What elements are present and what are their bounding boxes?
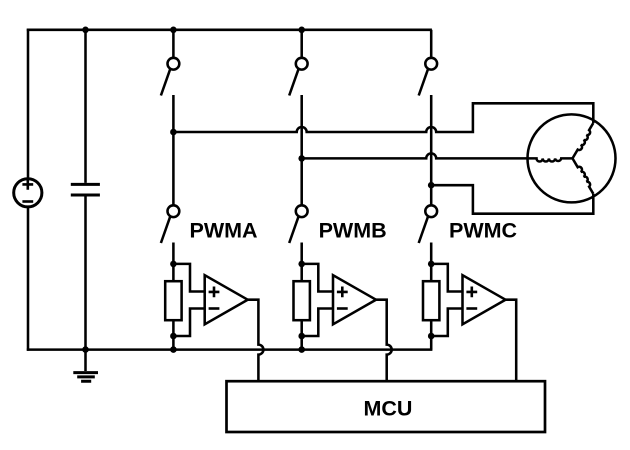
op-amp UC minus input mark: [466, 307, 477, 310]
resistor RB shunt: [294, 281, 310, 320]
switch SCL lever: [419, 216, 428, 243]
switch SAL circle: [168, 205, 180, 217]
wire op-amp UA -input branch: [173, 309, 204, 337]
node capacitor top rail: [82, 27, 89, 34]
wire phase C: [431, 185, 593, 214]
wire below resistor RA: [172, 320, 175, 349]
wire leg A mid: [172, 95, 175, 205]
node leg A top rail: [170, 27, 177, 34]
voltage source V1: [14, 179, 42, 207]
node -branch tap A: [170, 333, 177, 340]
wire top stub leg B: [300, 30, 303, 58]
ground symbol: [73, 373, 98, 382]
voltage source V1 plus mark: [22, 179, 33, 190]
svg-text:PWMB: PWMB: [319, 219, 387, 243]
node capacitor bottom rail: [82, 346, 89, 353]
motor winding phase C (lower-right arm): [573, 158, 594, 193]
wire left bus upper: [27, 29, 30, 178]
switch SAH circle: [168, 58, 180, 70]
wire bottom rail: [27, 348, 433, 351]
resistor RC shunt: [423, 281, 439, 320]
switch SBL circle: [296, 205, 308, 217]
switch SCH circle: [425, 58, 437, 70]
capacitor C1 plates: [71, 184, 100, 195]
node +branch tap A: [170, 261, 177, 268]
capacitor C1 top wire: [84, 30, 87, 183]
op-amp UC: [463, 275, 506, 324]
wire phase B with hop over leg C: [302, 153, 528, 158]
svg-text:MCU: MCU: [364, 397, 413, 421]
wire leg B lower: [300, 243, 303, 282]
switch SBH lever: [289, 69, 298, 96]
node +branch tap B: [298, 261, 305, 268]
wire op-amp UB +input branch: [302, 264, 333, 292]
switch SAH lever: [161, 69, 170, 96]
voltage source V1 minus mark: [22, 200, 33, 203]
switch SBH circle: [296, 58, 308, 70]
op-amp UA: [205, 275, 248, 324]
wire op-amp UA +input branch: [173, 264, 204, 292]
wire op-amp UC -input branch: [431, 309, 462, 337]
wire phase A with hops over legs B and C: [173, 103, 593, 132]
node leg A bottom rail: [170, 346, 177, 353]
motor winding phase B (left arm): [528, 158, 573, 161]
op-amp UB: [333, 275, 376, 324]
svg-text:PWMC: PWMC: [449, 219, 517, 243]
motor winding phase A (upper-right arm): [573, 123, 594, 158]
capacitor C1 bottom wire: [84, 197, 87, 350]
node leg B top rail: [298, 27, 305, 34]
switch SAL lever: [161, 216, 170, 243]
wire left bus lower: [27, 207, 30, 351]
node phase C tap: [428, 182, 435, 189]
svg-text:PWMA: PWMA: [190, 219, 258, 243]
op-amp UB plus input mark: [337, 287, 348, 298]
op-amp UB minus input mark: [337, 307, 348, 310]
op-amp UC plus input mark: [466, 287, 477, 298]
wire op-amp UC output to MCU: [506, 300, 517, 383]
switch SCL circle: [425, 205, 437, 217]
node phase A tap: [170, 129, 177, 136]
wire op-amp UC +input branch: [431, 264, 462, 292]
node -branch tap C: [428, 333, 435, 340]
wire below resistor RB: [300, 320, 303, 349]
wire top stub leg A: [172, 30, 175, 58]
wire top stub leg C: [430, 30, 433, 58]
wire below resistor RC: [430, 320, 433, 349]
op-amp UA minus input mark: [209, 307, 220, 310]
wire op-amp UA output to MCU: [248, 300, 264, 383]
wire leg A lower: [172, 243, 175, 282]
wire op-amp UB -input branch: [302, 309, 333, 337]
op-amp UA plus input mark: [209, 287, 220, 298]
wire leg C lower: [430, 243, 433, 282]
wire leg B mid: [300, 95, 303, 205]
MCU box: [227, 381, 546, 432]
wire leg C mid: [430, 95, 433, 205]
node phase B tap: [298, 155, 305, 162]
ground stub: [84, 350, 87, 371]
wire op-amp UB output to MCU: [376, 300, 392, 383]
node -branch tap B: [298, 333, 305, 340]
wire top rail: [27, 29, 432, 32]
node +branch tap C: [428, 261, 435, 268]
motor M1 body: [528, 114, 616, 202]
switch SCH lever: [419, 69, 428, 96]
switch SBL lever: [289, 216, 298, 243]
resistor RA shunt: [165, 281, 181, 320]
node leg B bottom rail: [298, 346, 305, 353]
